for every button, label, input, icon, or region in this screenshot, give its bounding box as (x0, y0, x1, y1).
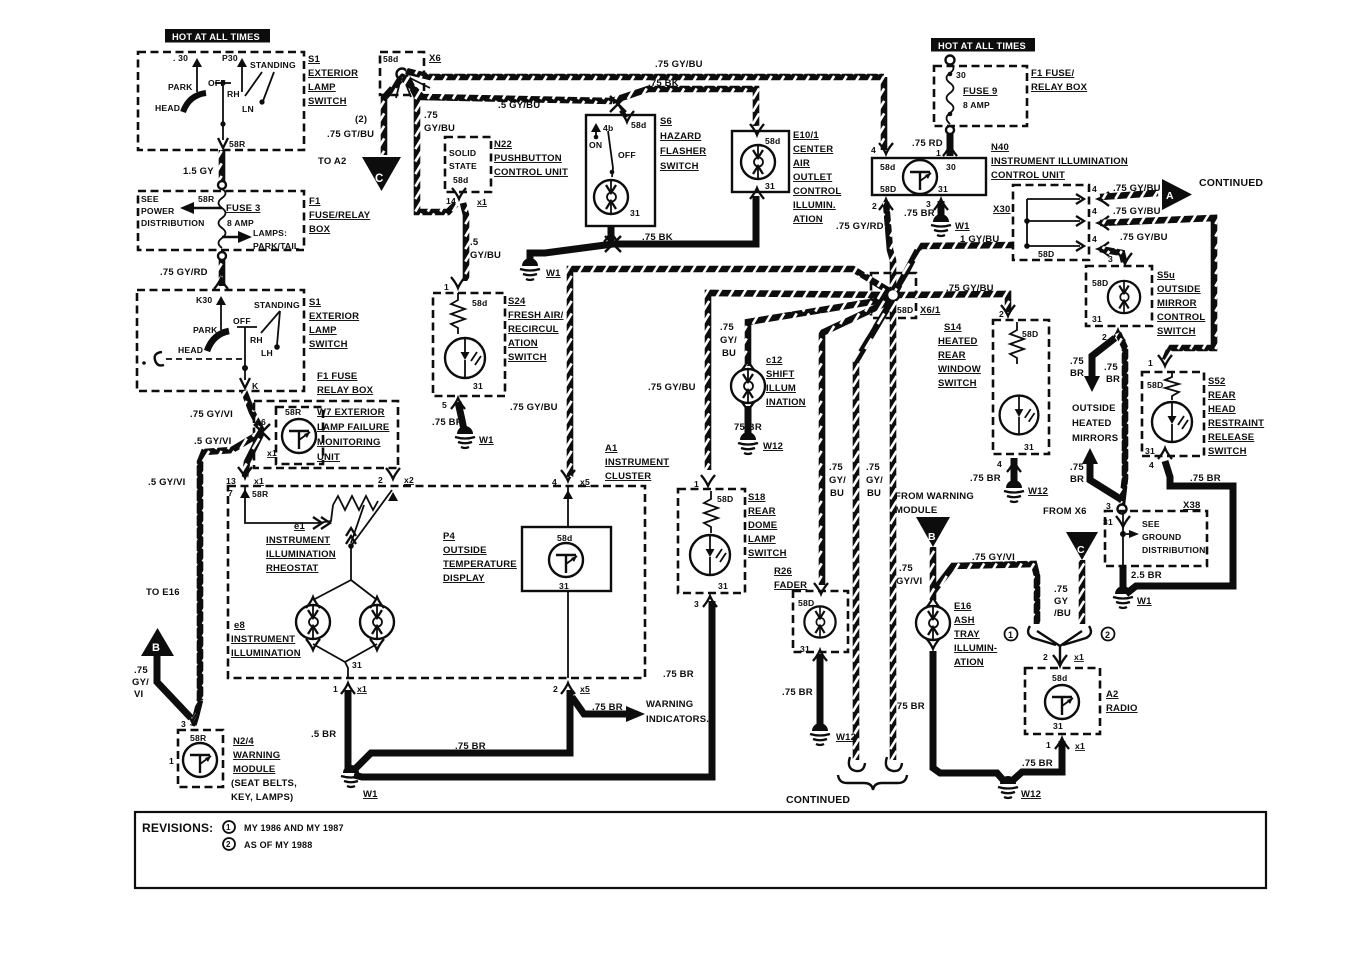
node P30 terminal (222, 53, 247, 92)
svg-text:FUSE 9: FUSE 9 (963, 86, 997, 97)
svg-text:4: 4 (1092, 184, 1097, 194)
wire .75 GY/BU hub to S18 pin 1 (708, 293, 888, 470)
svg-text:1: 1 (226, 823, 231, 832)
switch hook contact (155, 352, 164, 365)
svg-text:.75 BR: .75 BR (1022, 758, 1053, 769)
svg-text:3: 3 (1106, 501, 1111, 511)
wire dashed link (166, 358, 242, 360)
switch S6 blade (608, 131, 613, 177)
wire .75 BK bus right to E10/1 pin31 (613, 196, 756, 244)
svg-text:.75: .75 (899, 563, 913, 574)
switch head/park thick arc (183, 93, 206, 112)
wire (2) .75 GT/BU X6 to C (384, 80, 400, 155)
svg-text:INDICATORS.: INDICATORS. (646, 714, 709, 725)
svg-text:FADER: FADER (774, 580, 807, 591)
svg-text:CONTROL UNIT: CONTROL UNIT (991, 170, 1065, 181)
svg-text:3: 3 (1108, 254, 1113, 264)
svg-text:.75 GT/BU: .75 GT/BU (327, 129, 374, 140)
svg-text:.75: .75 (1070, 356, 1084, 367)
wire .75 BR S5u pin2 down to X38 pin 3 (1118, 333, 1125, 504)
svg-text:ASH: ASH (954, 615, 975, 626)
wire wiper to pin 2 x2 (351, 490, 392, 546)
wire .75 GY/VI from B to N2/4 (157, 656, 191, 718)
svg-text:MODULE: MODULE (895, 505, 937, 516)
svg-text:58R: 58R (252, 489, 269, 499)
unit N22 pushbutton control box (445, 137, 491, 192)
svg-text:F1: F1 (309, 196, 321, 207)
svg-text:P30: P30 (222, 53, 238, 63)
svg-text:58d: 58d (557, 533, 572, 543)
svg-text:S6: S6 (660, 116, 672, 127)
lamp e8 instrument illumination (left bulb) (296, 597, 330, 639)
wire arrow to power distribution (180, 202, 222, 214)
svg-text:ILLUMINATION: ILLUMINATION (231, 648, 301, 659)
hook ends above continued brace (849, 757, 865, 771)
svg-text:SWITCH: SWITCH (1157, 326, 1196, 337)
lamp S52 (1152, 402, 1192, 442)
svg-text:K: K (252, 381, 259, 391)
svg-text:REAR: REAR (938, 350, 966, 361)
label F1 FUSE RELAY BOX (lower) (317, 371, 374, 396)
svg-text:OUTSIDE: OUTSIDE (1157, 284, 1201, 295)
connector A triangle (continued) (1162, 179, 1192, 210)
label e8 INSTRUMENT ILLUMINATION (231, 620, 301, 659)
svg-text:FROM WARNING: FROM WARNING (895, 491, 974, 502)
svg-text:.75 GY/RD: .75 GY/RD (836, 221, 884, 232)
svg-text:1: 1 (1148, 358, 1153, 368)
brace continued (838, 775, 907, 790)
svg-text:.75: .75 (866, 462, 880, 473)
svg-text:.75 GY/BU: .75 GY/BU (1113, 206, 1161, 217)
label WARNING INDICATORS. (646, 699, 709, 725)
resistor S18 (704, 491, 718, 533)
lamp S14 (1000, 396, 1039, 435)
svg-text:LAMP: LAMP (308, 82, 336, 93)
svg-text:X38: X38 (1183, 500, 1201, 511)
svg-text:GY/: GY/ (720, 335, 737, 346)
svg-text:1: 1 (1046, 740, 1051, 750)
svg-text:.75 BR: .75 BR (904, 208, 935, 219)
svg-text:e1: e1 (294, 521, 305, 532)
node dot with arrow in X38 (1120, 531, 1126, 537)
wire X down to S6 pin (618, 104, 627, 117)
svg-text:.75 BK: .75 BK (648, 78, 679, 89)
svg-text:2: 2 (553, 684, 558, 694)
svg-text:W1: W1 (363, 789, 378, 800)
svg-text:K30: K30 (196, 295, 212, 305)
junction X on BK bus (605, 236, 621, 252)
label S18 REAR DOME LAMP SWITCH (748, 492, 787, 559)
junction X at W7 pin 16 (254, 424, 270, 440)
svg-text:N22: N22 (494, 139, 512, 150)
label A2 RADIO (1106, 689, 1138, 714)
svg-text:2: 2 (378, 475, 383, 485)
svg-text:31: 31 (352, 660, 362, 670)
svg-text:TRAY: TRAY (954, 629, 980, 640)
connector X38 ground distribution box (1105, 511, 1207, 566)
svg-text:58D: 58D (1092, 278, 1108, 288)
svg-text:REAR: REAR (748, 506, 776, 517)
svg-text:GY: GY (1054, 596, 1069, 607)
label SEE GROUND DISTRIBUTION (1142, 519, 1206, 555)
svg-text:58d: 58d (472, 298, 487, 308)
svg-text:58D: 58D (717, 494, 733, 504)
label FUSE 9 8 AMP (963, 86, 997, 110)
svg-text:.75 BR: .75 BR (782, 687, 813, 698)
svg-text:31: 31 (1092, 314, 1102, 324)
label F1 FUSE/RELAY BOX (right) (1031, 68, 1088, 93)
svg-text:31: 31 (1053, 721, 1063, 731)
svg-text:X6: X6 (429, 53, 441, 64)
svg-text:S52: S52 (1208, 376, 1226, 387)
svg-text:RHEOSTAT: RHEOSTAT (266, 563, 318, 574)
svg-text:S1: S1 (309, 297, 322, 308)
svg-text:MY 1986 AND MY 1987: MY 1986 AND MY 1987 (244, 823, 344, 833)
svg-text:ILLUMIN-: ILLUMIN- (954, 643, 997, 654)
svg-text:8 AMP: 8 AMP (963, 100, 990, 110)
svg-text:RESTRAINT: RESTRAINT (1208, 418, 1264, 429)
label S14 HEATED REAR WINDOW SWITCH (left side) (938, 322, 981, 389)
svg-text:DISTRIBUTION: DISTRIBUTION (141, 218, 205, 228)
transistor P4 (549, 543, 583, 577)
svg-text:SEE: SEE (141, 194, 159, 204)
wire .75 GY/BU X30 to S52 (1100, 218, 1214, 360)
svg-text:2: 2 (1043, 652, 1048, 662)
svg-text:S1: S1 (308, 54, 321, 65)
wire .75 GY/BU hub to S14 pin2 (899, 294, 1008, 312)
svg-text:INSTRUMENT ILLUMINATION: INSTRUMENT ILLUMINATION (991, 156, 1128, 167)
svg-text:STATE: STATE (449, 161, 477, 171)
svg-text:INATION: INATION (766, 397, 806, 408)
svg-text:GY/VI: GY/VI (896, 576, 922, 587)
svg-text:OUTSIDE: OUTSIDE (443, 545, 487, 556)
svg-text:TO A2: TO A2 (318, 156, 346, 167)
svg-text:.5 BR: .5 BR (311, 729, 336, 740)
wire 1 GY/BU hub to X30 (896, 245, 1013, 291)
svg-text:.75 GY/BU: .75 GY/BU (1120, 232, 1168, 243)
note 2 AS OF MY 1988 (223, 838, 312, 850)
node connector circle (218, 181, 226, 189)
wire lamps to pin 31 (313, 644, 377, 678)
svg-text:EXTERIOR: EXTERIOR (309, 311, 359, 322)
svg-text:HOT AT ALL TIMES: HOT AT ALL TIMES (172, 32, 260, 42)
svg-text:CONTROL: CONTROL (1157, 312, 1205, 323)
svg-text:DISTRIBUTION: DISTRIBUTION (1142, 545, 1206, 555)
switch S18 rear dome lamp box (678, 489, 745, 593)
label OUTSIDE HEATED MIRRORS (1072, 403, 1118, 444)
wire .75 BR N40 pin3 to ground W1 (938, 201, 945, 218)
svg-text:C: C (1077, 544, 1085, 556)
svg-text:2: 2 (226, 840, 231, 849)
label FROM WARNING MODULE (895, 491, 974, 516)
svg-text:1: 1 (333, 684, 338, 694)
svg-text:.75 GY/VI: .75 GY/VI (972, 552, 1015, 563)
svg-text:.5 GY/VI: .5 GY/VI (194, 436, 232, 447)
svg-text:1: 1 (1008, 630, 1013, 640)
svg-text:.75 GY/RD: .75 GY/RD (160, 267, 208, 278)
wire standing pointers (245, 72, 262, 96)
svg-text:CONTROL UNIT: CONTROL UNIT (494, 167, 568, 178)
svg-text:31: 31 (800, 644, 810, 654)
cluster A1 instrument cluster box (228, 486, 645, 678)
switch S1 exterior lamp switch (lower) box (137, 290, 304, 391)
svg-text:(SEAT BELTS,: (SEAT BELTS, (231, 778, 297, 789)
node X6 junction circle (397, 69, 408, 80)
svg-text:GY/: GY/ (829, 475, 846, 486)
svg-text:SWITCH: SWITCH (660, 161, 699, 172)
svg-text:.75 GY/BU: .75 GY/BU (648, 382, 696, 393)
display P4 outside temperature box (522, 527, 611, 591)
svg-text:x1: x1 (254, 476, 264, 486)
node battery terminal circle (946, 56, 955, 65)
ground W1 (S6) (520, 258, 540, 280)
svg-text:CONTINUED: CONTINUED (1199, 177, 1263, 189)
wire .75 GY/BU X30 to A (1100, 193, 1158, 197)
wire arrow to lamps park/tail (222, 231, 252, 243)
relay box F1 (left) (138, 191, 304, 250)
svg-text:.75 BK: .75 BK (642, 232, 673, 243)
pin 4 x5 (A1 top) (552, 470, 590, 487)
svg-text:/BU: /BU (1054, 608, 1071, 619)
power label HOT AT ALL TIMES (right) (931, 38, 1035, 52)
svg-text:F1 FUSE: F1 FUSE (317, 371, 357, 382)
note circled 1 at junction (1005, 628, 1018, 641)
svg-text:1: 1 (694, 479, 699, 489)
ground W1 (N40) (931, 214, 951, 236)
svg-text:58D: 58D (1038, 249, 1054, 259)
svg-text:2: 2 (999, 309, 1004, 319)
switch S6 hazard flasher box (586, 115, 655, 226)
wire .75 GY/RD down to K30 (219, 260, 226, 286)
svg-text:SEE: SEE (1142, 519, 1160, 529)
svg-text:4: 4 (1092, 234, 1097, 244)
svg-text:LAMPS:: LAMPS: (253, 228, 287, 238)
wire .75 BR c12 to ground W12 (745, 406, 752, 436)
svg-text:58R: 58R (198, 194, 215, 204)
svg-text:GY/BU: GY/BU (470, 250, 501, 261)
svg-text:BR: BR (1070, 368, 1084, 379)
svg-text:E16: E16 (954, 601, 972, 612)
svg-text:LAMP: LAMP (748, 534, 776, 545)
svg-text:TO E16: TO E16 (146, 587, 180, 598)
svg-text:1: 1 (169, 756, 174, 766)
svg-text:B: B (152, 642, 160, 654)
svg-text:F1 FUSE/: F1 FUSE/ (1031, 68, 1074, 79)
svg-text:DISPLAY: DISPLAY (443, 573, 485, 584)
svg-text:4: 4 (1149, 460, 1154, 470)
svg-text:C: C (375, 173, 384, 185)
node 4b contact (589, 123, 613, 150)
wire .75 BR S52 pin4 to ground W1 (1126, 461, 1233, 594)
svg-text:MIRRORS: MIRRORS (1072, 433, 1118, 444)
svg-text:FUSE/RELAY: FUSE/RELAY (309, 210, 371, 221)
wire .75 BR E16 to ground W12 (933, 651, 1004, 781)
svg-text:58d: 58d (765, 136, 780, 146)
svg-text:WARNING: WARNING (646, 699, 693, 710)
pin 2 x2 (A1 top) (378, 468, 414, 501)
svg-text:ILLUMIN.: ILLUMIN. (793, 200, 836, 211)
svg-text:3: 3 (181, 719, 186, 729)
svg-text:58d: 58d (453, 175, 468, 185)
svg-text:BU: BU (722, 348, 736, 359)
svg-text:31: 31 (938, 184, 948, 194)
svg-text:INSTRUMENT: INSTRUMENT (266, 535, 330, 546)
svg-text:KEY, LAMPS): KEY, LAMPS) (231, 792, 293, 803)
bulb S5u (1108, 281, 1140, 313)
wire .75 BR A2 to ground W12 (1012, 741, 1062, 781)
revisions box (135, 812, 1266, 888)
unit N40 instrument illumination control box (872, 158, 986, 195)
switch wiper line (lower S1) (237, 327, 257, 388)
svg-text:4: 4 (1092, 206, 1097, 216)
svg-text:ATION: ATION (793, 214, 823, 225)
connector C triangle (down, to A2) (362, 157, 401, 191)
svg-text:SOLID: SOLID (449, 148, 476, 158)
svg-text:A2: A2 (1106, 689, 1119, 700)
svg-text:BU: BU (830, 488, 844, 499)
svg-text:B: B (928, 531, 936, 543)
svg-text:.75 BR: .75 BR (592, 702, 623, 713)
wire vertical to N40 pin 4 (881, 77, 888, 150)
wire .75 GY/BU hub to A1 pin x5 (570, 269, 889, 477)
svg-text:RECIRCUL: RECIRCUL (508, 324, 559, 335)
svg-text:1.5 GY: 1.5 GY (183, 166, 214, 177)
wire .75 GY/BU C to junction 2 (1079, 560, 1086, 624)
pin 2 x5 (A1 bottom) (553, 683, 590, 694)
transistor N2/4 (183, 743, 217, 777)
radio A2 box (1025, 668, 1100, 734)
svg-text:HOT AT ALL TIMES: HOT AT ALL TIMES (938, 41, 1026, 51)
switch S1 exterior lamp switch (upper) box (138, 52, 304, 150)
wire .5 GY/VI branch to left vertical (200, 432, 262, 700)
svg-text:FRESH AIR/: FRESH AIR/ (508, 310, 564, 321)
svg-text:31: 31 (559, 581, 569, 591)
svg-text:RADIO: RADIO (1106, 703, 1138, 714)
hub X6/1 connector box (871, 273, 916, 318)
label E16 ASH TRAY ILLUMINATION (954, 601, 997, 668)
wire arrow down to outside heated mirrors (1092, 338, 1115, 380)
svg-text:ATION: ATION (954, 657, 984, 668)
chevrons on rheostat feed (313, 517, 330, 529)
svg-text:W12: W12 (836, 732, 856, 743)
ground W1 (X38) (1113, 586, 1133, 608)
wire arrow up from outside heated mirrors (1090, 460, 1122, 500)
label E10/1 CENTER AIR OUTLET CONTROL ILLUMINATION (793, 130, 841, 225)
lamp S6 bulb (594, 180, 628, 214)
svg-text:x1: x1 (267, 448, 277, 458)
svg-text:31: 31 (718, 581, 728, 591)
label W7 EXTERIOR LAMP FAILURE MONITORING UNIT (317, 407, 389, 463)
svg-text:58D: 58D (1022, 329, 1038, 339)
svg-text:(2): (2) (355, 114, 367, 125)
svg-text:2.5 BR: 2.5 BR (1131, 570, 1162, 581)
label S1 EXTERIOR LAMP SWITCH (upper) (308, 54, 358, 107)
wire .75 GY/BU hub to continued (right) (890, 301, 897, 760)
fuse F9 element (947, 64, 954, 124)
svg-text:58R: 58R (229, 139, 246, 149)
svg-text:58R: 58R (190, 733, 207, 743)
wire .75 GY/BU top run X6 to N40 pin4 (406, 71, 884, 77)
svg-text:SWITCH: SWITCH (1208, 446, 1247, 457)
label F1 FUSE/RELAY BOX (left) (309, 196, 371, 235)
svg-text:RELAY BOX: RELAY BOX (1031, 82, 1088, 93)
svg-text:INSTRUMENT: INSTRUMENT (605, 457, 669, 468)
svg-text:2: 2 (872, 201, 877, 211)
svg-text:3: 3 (694, 599, 699, 609)
wire X to pin 13 (245, 432, 262, 477)
lamp unit E10/1 center air outlet box (732, 131, 789, 192)
svg-text:RELAY BOX: RELAY BOX (317, 385, 374, 396)
svg-text:.75: .75 (720, 322, 734, 333)
svg-text:MONITORING: MONITORING (317, 437, 381, 448)
svg-text:REAR: REAR (1208, 390, 1236, 401)
svg-text:58d: 58d (880, 162, 895, 172)
node 30 terminal (173, 53, 202, 92)
svg-text:FROM X6: FROM X6 (1043, 506, 1087, 517)
svg-text:MIRROR: MIRROR (1157, 298, 1197, 309)
wire wiper to lamps (313, 546, 377, 600)
svg-text:ATION: ATION (508, 338, 538, 349)
svg-text:x1: x1 (477, 197, 487, 207)
svg-text:CONTROL: CONTROL (793, 186, 841, 197)
resistor e1 rheostat element (333, 496, 378, 510)
svg-text:LAMP FAILURE: LAMP FAILURE (317, 422, 389, 433)
svg-text:CLUSTER: CLUSTER (605, 471, 651, 482)
svg-text:SHIFT: SHIFT (766, 369, 794, 380)
svg-text:HAZARD: HAZARD (660, 131, 701, 142)
svg-text:N2/4: N2/4 (233, 736, 254, 747)
svg-text:58D: 58D (798, 598, 814, 608)
wire standing pointers (261, 311, 280, 333)
svg-text:W1: W1 (955, 221, 970, 232)
svg-text:W7 EXTERIOR: W7 EXTERIOR (317, 407, 385, 418)
svg-text:RH: RH (250, 335, 263, 345)
svg-text:R26: R26 (774, 566, 792, 577)
svg-text:e8: e8 (234, 620, 245, 631)
bulb E10/1 (741, 145, 775, 179)
svg-text:.75 GY/BU: .75 GY/BU (1113, 183, 1161, 194)
svg-text:58R: 58R (285, 407, 302, 417)
svg-text:30: 30 (946, 162, 956, 172)
wire .75 GY/BU hub to R26 (822, 301, 890, 585)
label N40 INSTRUMENT ILLUMINATION CONTROL UNIT (991, 142, 1128, 181)
svg-text:A1: A1 (605, 443, 618, 454)
svg-text:WARNING: WARNING (233, 750, 280, 761)
svg-text:.75 BR: .75 BR (1190, 473, 1221, 484)
resistor S52 (1165, 372, 1179, 400)
svg-text:BR: BR (1070, 474, 1084, 485)
svg-text:31: 31 (630, 208, 640, 218)
label S1 EXTERIOR LAMP SWITCH (lower) (309, 297, 359, 350)
note 1 MY 1986 AND MY 1987 (223, 821, 344, 833)
wire .75 BK X to E10/1 (612, 89, 756, 126)
svg-text:ON: ON (589, 140, 602, 150)
switch S5u outside mirror control box (1086, 266, 1152, 326)
ground W12 (c12) (738, 432, 758, 454)
junction X at S6 top (610, 96, 626, 112)
note circled 2 at junction (1102, 628, 1115, 641)
svg-text:.75: .75 (1054, 584, 1068, 595)
svg-text:4: 4 (552, 477, 557, 487)
wire .75 GY/BU hub to c12 (748, 299, 889, 366)
svg-text:.75 GY/BU: .75 GY/BU (510, 402, 558, 413)
svg-text:x1: x1 (1075, 741, 1085, 751)
wire .5 GY/BU X6 to X crossing (404, 79, 612, 101)
label R26 FADER (774, 566, 807, 591)
svg-text:. 30: . 30 (173, 53, 188, 63)
svg-text:GROUND: GROUND (1142, 532, 1181, 542)
wire 2.5 BR to ground W1 (1120, 566, 1127, 590)
